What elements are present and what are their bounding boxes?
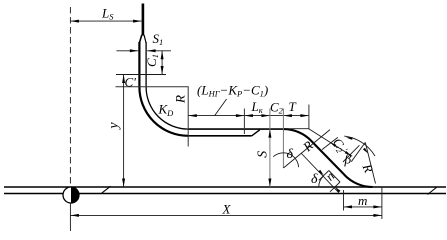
beta right leg <box>365 142 375 183</box>
dimension line X <box>70 214 382 216</box>
radius line D1 <box>283 130 330 168</box>
base sheet bottom line <box>4 193 446 195</box>
dimension row line <box>188 115 309 117</box>
extension line at x=308.9 <box>308 105 310 130</box>
m extension line right <box>381 187 383 219</box>
beta angle arc <box>344 136 375 156</box>
dimension S1 right segment <box>147 50 171 52</box>
base break slash left <box>102 186 111 193</box>
datum half-filled circle <box>63 187 79 203</box>
delta angle arc upper <box>273 153 298 167</box>
base break slash right <box>428 187 438 195</box>
profile taper left <box>139 35 141 43</box>
profile S-curve (joggle centerline) <box>283 129 372 187</box>
extension line at x=269.9 (S dimension line) <box>269 109 271 188</box>
dimension line L_S <box>70 20 141 22</box>
profile wall outer line <box>138 42 140 87</box>
dimension line C-prime and y <box>123 75 125 188</box>
svg-text:m: m <box>358 193 367 208</box>
leader line for L_HG label <box>215 99 227 116</box>
C2-prime tick 2 <box>343 145 360 162</box>
svg-text:δ: δ <box>311 172 318 187</box>
extension line at x=244.4 <box>243 109 245 135</box>
profile web bottom line <box>188 135 252 137</box>
extension line at C-prime top <box>116 74 166 76</box>
n tick A <box>319 171 329 181</box>
svg-text:y: y <box>107 122 122 131</box>
dimension line m <box>344 206 382 208</box>
web tangent extension horizontal <box>284 128 309 130</box>
tangent extension line and radius horizontal <box>116 87 189 147</box>
profile top stem <box>142 4 145 36</box>
extension line at x=283.4 <box>282 109 284 169</box>
n tick B <box>330 182 340 192</box>
svg-text:X: X <box>222 202 232 217</box>
n box top line <box>329 171 340 183</box>
profile web bottom ramp <box>252 130 260 136</box>
svg-text:(LНГ−KР−C1): (LНГ−KР−C1) <box>197 83 268 99</box>
delta angle arc lower <box>319 176 324 188</box>
profile bend outer arc <box>139 87 188 136</box>
svg-text:δ: δ <box>287 147 294 162</box>
profile web top line <box>188 128 284 130</box>
dimension S1 left segment <box>117 50 139 52</box>
datum dashed axis line <box>69 7 71 187</box>
m extension line left <box>343 190 345 211</box>
svg-text:C′: C′ <box>125 75 137 90</box>
C2-prime tick 1 <box>322 137 338 149</box>
C2-prime dimension line along slope <box>309 129 353 157</box>
incline tangent line E1 <box>301 153 339 193</box>
svg-text:S: S <box>255 151 270 158</box>
dimension line C1 <box>161 51 163 75</box>
svg-text:T: T <box>289 99 297 114</box>
datum axis below circle <box>69 203 71 231</box>
profile wall inner line <box>145 42 147 87</box>
svg-text:R: R <box>173 95 188 104</box>
base sheet top line <box>4 186 446 188</box>
profile taper right <box>144 35 146 43</box>
profile bend inner arc <box>146 87 188 129</box>
svg-text:β: β <box>344 152 352 167</box>
beta left leg <box>351 142 365 161</box>
